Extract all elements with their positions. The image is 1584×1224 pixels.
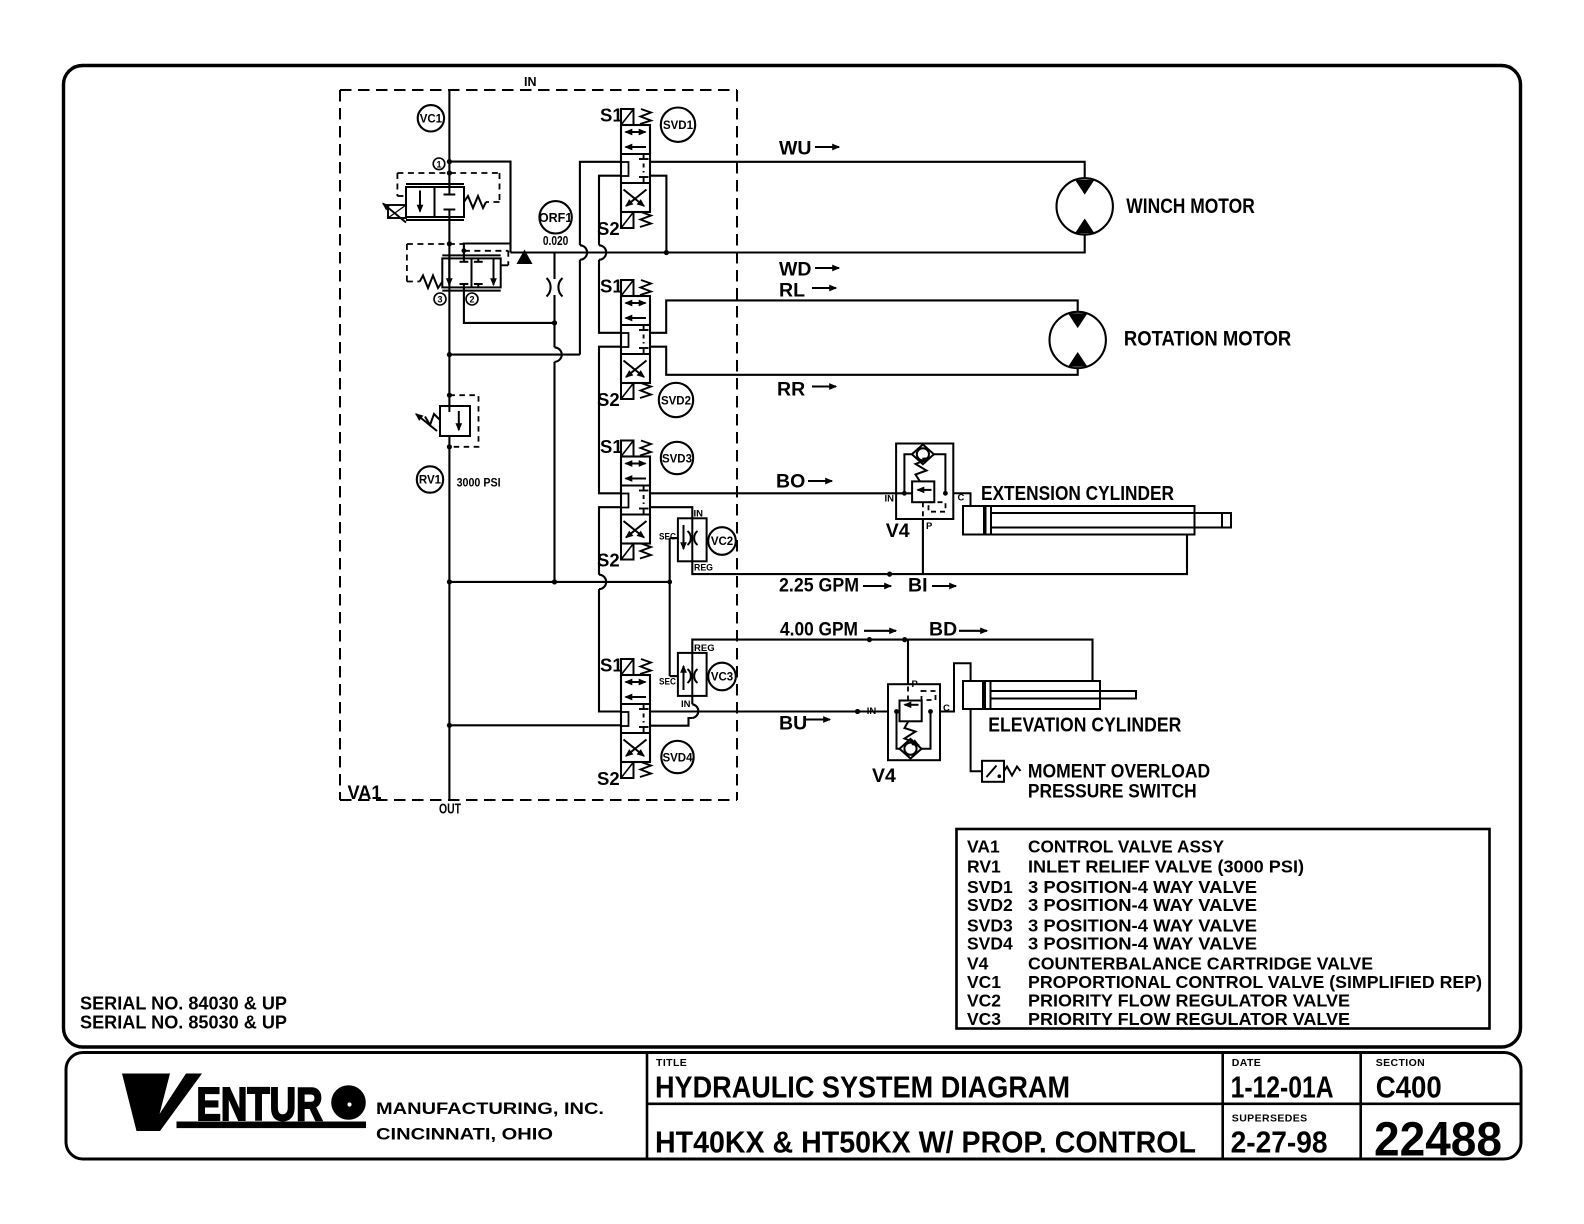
- svg-text:4.00 GPM: 4.00 GPM: [780, 619, 858, 641]
- svg-text:2: 2: [469, 295, 474, 305]
- svg-text:SVD3: SVD3: [662, 453, 692, 465]
- svg-text:VC3: VC3: [711, 672, 733, 684]
- svg-text:2-27-98: 2-27-98: [1231, 1125, 1328, 1160]
- svg-text:ORF1: ORF1: [539, 211, 572, 225]
- svg-text:MANUFACTURING, INC.: MANUFACTURING, INC.: [376, 1100, 604, 1118]
- svg-text:SEC: SEC: [659, 532, 676, 543]
- svg-text:SERIAL NO. 84030 & UP: SERIAL NO. 84030 & UP: [80, 994, 287, 1014]
- svg-text:3 POSITION-4 WAY VALVE: 3 POSITION-4 WAY VALVE: [1028, 934, 1257, 954]
- svg-text:P: P: [926, 521, 933, 532]
- svg-text:SVD1: SVD1: [967, 877, 1013, 897]
- svg-text:IN: IN: [867, 706, 877, 717]
- svg-text:V4: V4: [872, 765, 896, 787]
- svg-text:C: C: [943, 703, 950, 714]
- svg-text:EXTENSION CYLINDER: EXTENSION CYLINDER: [981, 482, 1174, 505]
- svg-text:2.25 GPM: 2.25 GPM: [779, 575, 859, 597]
- svg-text:MOMENT OVERLOAD: MOMENT OVERLOAD: [1028, 762, 1210, 783]
- svg-text:1: 1: [436, 159, 441, 169]
- svg-text:3000 PSI: 3000 PSI: [457, 476, 501, 490]
- svg-text:HYDRAULIC SYSTEM DIAGRAM: HYDRAULIC SYSTEM DIAGRAM: [655, 1070, 1070, 1105]
- svg-text:3 POSITION-4 WAY VALVE: 3 POSITION-4 WAY VALVE: [1028, 915, 1257, 935]
- svg-text:ELEVATION CYLINDER: ELEVATION CYLINDER: [988, 714, 1181, 737]
- svg-text:VC2: VC2: [967, 990, 1001, 1010]
- svg-text:RV1: RV1: [419, 475, 442, 487]
- svg-text:C400: C400: [1376, 1070, 1442, 1105]
- svg-text:IN: IN: [681, 699, 691, 710]
- svg-text:VC3: VC3: [967, 1009, 1001, 1029]
- svg-text:IN: IN: [885, 494, 895, 505]
- svg-text:PRESSURE SWITCH: PRESSURE SWITCH: [1028, 781, 1197, 802]
- svg-text:P: P: [912, 679, 919, 690]
- svg-text:3 POSITION-4 WAY VALVE: 3 POSITION-4 WAY VALVE: [1028, 895, 1257, 915]
- svg-text:22488: 22488: [1374, 1114, 1502, 1167]
- svg-text:PRIORITY FLOW REGULATOR VAL: PRIORITY FLOW REGULATOR VALVE: [1028, 990, 1350, 1010]
- svg-text:SERIAL NO. 85030 & UP: SERIAL NO. 85030 & UP: [80, 1013, 287, 1033]
- svg-text:SVD3: SVD3: [967, 915, 1013, 935]
- svg-text:IN: IN: [524, 75, 537, 89]
- svg-text:1-12-01A: 1-12-01A: [1231, 1070, 1334, 1105]
- svg-text:VC2: VC2: [711, 536, 733, 548]
- svg-text:RL: RL: [779, 280, 805, 302]
- svg-text:VA1: VA1: [348, 782, 382, 804]
- svg-text:PROPORTIONAL CONTROL VALVE: PROPORTIONAL CONTROL VALVE (SIMPLIFIED R…: [1028, 972, 1482, 992]
- svg-text:WU: WU: [779, 138, 812, 160]
- svg-text:ROTATION MOTOR: ROTATION MOTOR: [1124, 327, 1291, 350]
- svg-text:IN: IN: [694, 509, 704, 520]
- svg-text:SVD4: SVD4: [662, 752, 693, 764]
- svg-text:BI: BI: [908, 575, 928, 597]
- svg-text:SECTION: SECTION: [1376, 1057, 1425, 1069]
- svg-text:3: 3: [437, 295, 442, 305]
- svg-text:0.020: 0.020: [543, 234, 569, 248]
- svg-text:OUT: OUT: [439, 801, 461, 818]
- svg-text:3 POSITION-4 WAY VALVE: 3 POSITION-4 WAY VALVE: [1028, 877, 1257, 897]
- svg-text:SVD2: SVD2: [661, 395, 691, 407]
- svg-text:WINCH MOTOR: WINCH MOTOR: [1126, 195, 1255, 218]
- svg-text:REG: REG: [694, 563, 713, 574]
- svg-text:V4: V4: [886, 520, 910, 542]
- svg-text:COUNTERBALANCE CARTRIDGE VAL: COUNTERBALANCE CARTRIDGE VALVE: [1028, 954, 1373, 974]
- svg-text:INLET RELIEF VALVE (3000 P: INLET RELIEF VALVE (3000 PSI): [1028, 857, 1304, 877]
- svg-text:C: C: [958, 493, 965, 504]
- svg-text:REG: REG: [694, 643, 715, 654]
- svg-text:VC1: VC1: [420, 114, 443, 126]
- svg-text:TITLE: TITLE: [656, 1057, 687, 1069]
- svg-text:SVD1: SVD1: [663, 120, 694, 132]
- svg-text:BD: BD: [929, 619, 957, 641]
- svg-text:SUPERSEDES: SUPERSEDES: [1232, 1113, 1308, 1125]
- svg-text:HT40KX & HT50KX W/ PROP. CONTR: HT40KX & HT50KX W/ PROP. CONTROL: [655, 1125, 1196, 1160]
- svg-text:PRIORITY FLOW REGULATOR VAL: PRIORITY FLOW REGULATOR VALVE: [1028, 1009, 1350, 1029]
- svg-text:BU: BU: [779, 713, 807, 735]
- svg-text:CINCINNATI, OHIO: CINCINNATI, OHIO: [376, 1126, 553, 1144]
- svg-text:DATE: DATE: [1232, 1057, 1261, 1069]
- svg-text:SVD4: SVD4: [967, 934, 1013, 954]
- svg-text:SEC: SEC: [659, 677, 676, 688]
- svg-text:CONTROL VALVE ASSY: CONTROL VALVE ASSY: [1028, 836, 1224, 856]
- svg-text:VA1: VA1: [967, 836, 1000, 856]
- svg-text:VC1: VC1: [967, 972, 1001, 992]
- svg-text:V4: V4: [967, 954, 989, 974]
- svg-text:RR: RR: [777, 379, 805, 401]
- svg-text:SVD2: SVD2: [967, 895, 1013, 915]
- svg-text:RV1: RV1: [967, 857, 1001, 877]
- svg-text:WD: WD: [779, 259, 812, 281]
- svg-text:BO: BO: [776, 471, 805, 493]
